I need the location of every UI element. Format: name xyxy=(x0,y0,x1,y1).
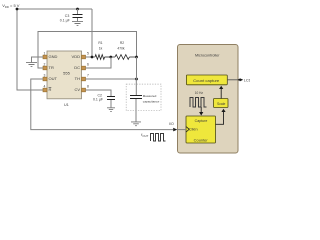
svg-text:8: 8 xyxy=(87,84,89,88)
capacitor C3 xyxy=(73,9,83,21)
svg-text:5: 5 xyxy=(87,51,89,55)
arrow Counter to Scale xyxy=(216,109,226,125)
svg-text:OUT: OUT xyxy=(49,76,58,81)
square wave fOUT xyxy=(151,134,166,141)
pin 6 DC xyxy=(74,62,89,70)
svg-text:TH: TH xyxy=(75,76,80,81)
label C3 value xyxy=(60,14,70,22)
ground C3 xyxy=(72,22,83,26)
pin 5 VDD xyxy=(72,51,89,59)
wire VDD left rail down to pin4 xyxy=(17,9,43,90)
svg-text:I/O: I/O xyxy=(169,122,174,126)
net VDD label xyxy=(2,3,20,9)
capacitor CX measured xyxy=(130,94,160,122)
node A xyxy=(109,56,112,59)
arrow Scale to Count capture xyxy=(219,86,223,99)
clock wedge ClkIn xyxy=(186,127,189,133)
wire VDD riser right xyxy=(91,9,93,57)
box Capture/ClkIn/Counter xyxy=(186,116,216,143)
pin 2 TR xyxy=(43,62,54,70)
svg-text:2: 2 xyxy=(44,62,46,66)
svg-text:CV: CV xyxy=(74,87,80,92)
svg-text:Measured: Measured xyxy=(143,94,157,98)
svg-text:1: 1 xyxy=(44,51,46,55)
svg-text:U1: U1 xyxy=(64,103,69,107)
svg-text:10 Hz: 10 Hz xyxy=(195,91,203,95)
pin 4 R reset xyxy=(43,84,52,92)
wire rail node B down xyxy=(135,57,137,95)
square wave 10 Hz clock xyxy=(190,97,206,107)
ground pin1 xyxy=(26,63,37,67)
svg-text:R1: R1 xyxy=(98,41,102,45)
svg-text:Count capture: Count capture xyxy=(193,79,219,83)
wire TR pin2 bypass to node B xyxy=(38,32,137,69)
svg-text:GND: GND xyxy=(49,54,58,59)
svg-text:R: R xyxy=(49,87,52,92)
svg-text:1k: 1k xyxy=(99,47,103,51)
wire DC pin6 up to node A xyxy=(86,57,112,68)
pin 3 OUT xyxy=(43,73,58,81)
svg-text:Scale: Scale xyxy=(217,102,226,106)
svg-text:VDD: VDD xyxy=(72,54,81,59)
pin 1 GND xyxy=(43,51,58,59)
svg-text:3: 3 xyxy=(44,73,46,77)
resistor R1 xyxy=(95,41,111,59)
arrow to LCD xyxy=(227,79,240,81)
node VDD left xyxy=(16,8,19,11)
node B xyxy=(135,56,138,59)
svg-text:555: 555 xyxy=(63,70,70,75)
wire into ClkIn xyxy=(178,129,187,131)
svg-text:470k: 470k xyxy=(117,47,125,51)
wire TH pin7 to rail xyxy=(86,78,137,80)
wire CV pin8 xyxy=(86,90,112,96)
svg-text:LCD: LCD xyxy=(244,78,250,82)
capacitor C2 xyxy=(93,94,115,108)
arrow 10Hz to Capture xyxy=(199,107,203,116)
MCU panel xyxy=(178,45,239,154)
svg-text:DC: DC xyxy=(74,65,80,70)
pin 8 CV xyxy=(74,84,89,92)
box Count capture xyxy=(186,75,227,85)
arrowhead into MCU xyxy=(173,128,177,132)
ground measured cap xyxy=(131,122,141,126)
svg-text:Microcontroller: Microcontroller xyxy=(195,52,220,57)
svg-text:Capture: Capture xyxy=(195,119,208,123)
svg-text:0.1 µF: 0.1 µF xyxy=(93,97,103,101)
node VDD riser junction xyxy=(91,56,94,59)
svg-text:Counter: Counter xyxy=(194,139,209,143)
wire VDD top rail xyxy=(17,8,92,10)
svg-text:6: 6 xyxy=(87,62,89,66)
pin 7 TH xyxy=(75,73,89,81)
svg-text:TR: TR xyxy=(49,65,54,70)
box Scale xyxy=(214,99,229,108)
node TH junction xyxy=(135,78,138,81)
wire OUT pin3 to MCU xyxy=(31,79,173,130)
wire VDD pin5 xyxy=(86,56,96,58)
svg-text:0.1 µF: 0.1 µF xyxy=(60,19,70,23)
svg-text:ClkIn: ClkIn xyxy=(189,128,198,132)
svg-text:R2: R2 xyxy=(120,41,124,45)
svg-text:4: 4 xyxy=(44,84,46,88)
ground C2 xyxy=(107,108,115,112)
svg-text:7: 7 xyxy=(87,73,89,77)
svg-text:C3: C3 xyxy=(65,14,70,18)
resistor R2 xyxy=(111,41,137,59)
wire GND pin1 xyxy=(32,57,44,62)
node C3 top xyxy=(76,8,79,11)
IC 555 U1 body xyxy=(47,51,82,107)
svg-text:capacitance: capacitance xyxy=(143,100,160,104)
measured capacitance dashed box xyxy=(126,84,161,111)
